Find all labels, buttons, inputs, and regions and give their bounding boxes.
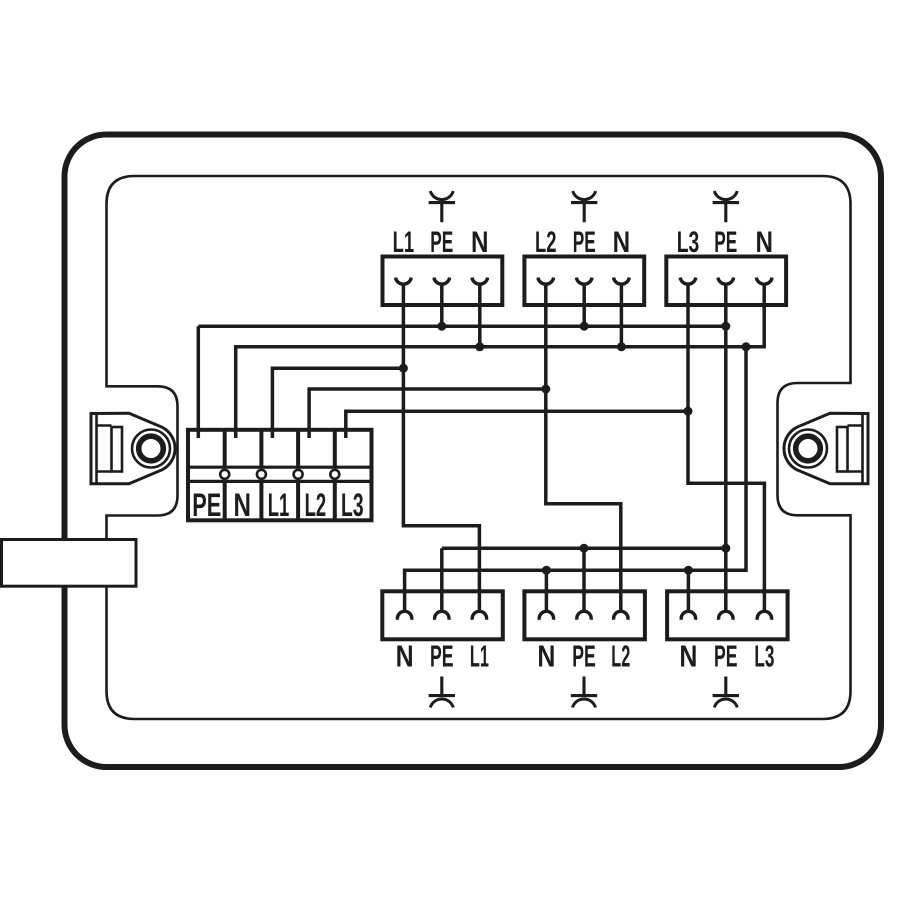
junction N bus / N riser	[742, 342, 751, 351]
enclosure inner border with mounting-tab bumps	[107, 176, 851, 719]
wire N bus (top)	[236, 284, 765, 438]
wire X6 N drop	[687, 570, 691, 612]
enclosure outer border	[65, 135, 882, 768]
junction N bottom / X6 N	[684, 566, 693, 575]
wire L1 X1 to X4	[403, 284, 479, 613]
junction PE bottom / riser	[721, 544, 730, 553]
terminal block X4 (N PE L1)	[382, 591, 503, 673]
strain relief symbol below X5	[571, 677, 597, 708]
svg-text:N: N	[396, 639, 414, 674]
svg-text:L2: L2	[611, 639, 630, 674]
svg-text:L3: L3	[341, 487, 364, 523]
svg-text:PE: PE	[430, 639, 454, 674]
svg-text:L1: L1	[393, 226, 415, 259]
wire X4 PE drop	[440, 548, 444, 612]
svg-text:L3: L3	[754, 639, 774, 674]
terminal block X5 (N PE L2)	[524, 591, 645, 673]
terminal block X3 (L3 PE N)	[666, 226, 786, 305]
junction L3	[684, 407, 693, 416]
wire PE stub into X0 cell 1	[197, 326, 201, 438]
main supply terminal block X0 (PE N L1 L2 L3)	[188, 430, 372, 523]
strain relief symbol below X4	[429, 677, 455, 708]
terminal block X1 (L1 PE N)	[383, 226, 503, 305]
svg-text:N: N	[613, 226, 631, 259]
svg-text:N: N	[679, 639, 697, 674]
svg-text:L2: L2	[305, 487, 327, 523]
strain relief symbol above X3	[713, 191, 739, 222]
terminal block X2 (L2 PE N)	[524, 226, 644, 305]
wire X5 PE drop	[582, 548, 586, 612]
wire PE bus (bottom)	[442, 546, 726, 550]
wire X1 N stem	[478, 284, 482, 347]
wire PE bus (top)	[198, 324, 726, 328]
svg-text:PE: PE	[714, 226, 737, 259]
junction PE bus / X1 PE	[437, 322, 446, 331]
svg-text:L1: L1	[268, 487, 290, 523]
wire N riser	[405, 347, 746, 613]
wire X2 N stem	[620, 284, 624, 347]
svg-text:N: N	[471, 226, 489, 259]
wire X2 PE stem	[582, 284, 586, 326]
strain relief symbol above X2	[571, 191, 597, 222]
cable entry duct (left)	[2, 540, 137, 587]
junction N bottom / X5 N	[542, 566, 551, 575]
left mounting lug	[91, 413, 175, 484]
svg-text:PE: PE	[714, 639, 738, 674]
strain relief symbol below X6	[713, 677, 739, 708]
svg-text:PE: PE	[430, 226, 453, 259]
wire X5 N drop	[545, 570, 549, 612]
svg-text:L3: L3	[677, 226, 700, 259]
right mounting lug	[784, 413, 868, 484]
wire L3 X3 to X6	[688, 284, 764, 613]
svg-text:PE: PE	[573, 226, 596, 259]
svg-text:N: N	[755, 226, 773, 259]
svg-text:L2: L2	[535, 226, 557, 259]
junction PE bottom / X5 PE	[580, 544, 589, 553]
svg-text:N: N	[537, 639, 555, 674]
terminal block X6 (N PE L3)	[667, 591, 788, 673]
junction PE bus / X2 PE	[580, 322, 589, 331]
wire X1 PE stem	[440, 284, 444, 326]
wire X3 PE stem / PE riser	[724, 284, 728, 613]
junction N bus / X1 N	[475, 342, 484, 351]
wire L2 X2 to X5	[546, 284, 621, 613]
junction L1	[399, 364, 408, 373]
svg-text:N: N	[234, 487, 252, 523]
svg-text:L1: L1	[470, 639, 489, 674]
wire L1 link to X0 cell 3	[272, 368, 403, 438]
wire L3 link to X0 cell 5	[346, 411, 688, 438]
junction N bus / X2 N	[617, 342, 626, 351]
svg-text:PE: PE	[572, 639, 596, 674]
junction PE bus / PE riser	[721, 322, 730, 331]
strain relief symbol above X1	[429, 191, 455, 222]
wire L2 link to X0 cell 4	[309, 389, 546, 438]
svg-text:PE: PE	[192, 487, 221, 523]
junction L2	[541, 385, 550, 394]
